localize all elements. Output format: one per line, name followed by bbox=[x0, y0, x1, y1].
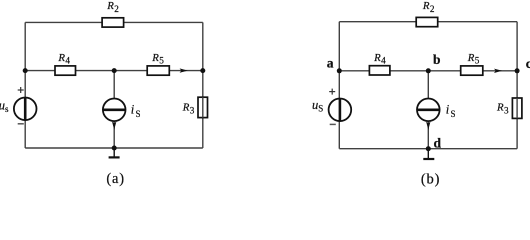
wire (b) middle horizontal bbox=[339, 70, 517, 72]
resistor R5 (b) bbox=[461, 66, 483, 75]
wire (a) bottom side bbox=[25, 147, 203, 149]
current arrow on (b) middle wire toward node c bbox=[494, 69, 502, 73]
current source is (a) bbox=[103, 99, 126, 122]
resistor R3 (a) bbox=[198, 97, 208, 117]
plus polarity mark (b) bbox=[329, 89, 335, 95]
wire (b) left side bbox=[338, 22, 340, 149]
ground symbol (a) bbox=[109, 148, 120, 157]
resistor R2 (b) bbox=[416, 17, 438, 26]
wire (a) right side bbox=[202, 22, 204, 148]
node b junction bbox=[426, 68, 431, 73]
resistor R2 (a) bbox=[102, 18, 124, 27]
node c junction bbox=[515, 68, 520, 73]
wire (a) left side bbox=[24, 22, 26, 148]
resistor R4 (a) bbox=[55, 66, 76, 75]
plus polarity mark (a) bbox=[18, 87, 24, 93]
ground symbol (b) bbox=[423, 149, 434, 159]
node (a) bottom junction bbox=[112, 146, 117, 151]
wire (b) right side bbox=[516, 22, 518, 149]
svg-text:c: c bbox=[526, 56, 530, 71]
current direction arrow below iS (b) bbox=[426, 122, 430, 130]
svg-text:(b): (b) bbox=[421, 171, 440, 187]
wire (a) top side bbox=[25, 21, 203, 23]
wire (a) current-source branch bbox=[113, 71, 115, 148]
node d junction bbox=[426, 146, 431, 151]
svg-text:b: b bbox=[433, 52, 441, 67]
wire (a) middle horizontal bbox=[25, 70, 203, 72]
voltage source us (a) bbox=[14, 98, 37, 121]
node (a) left junction bbox=[23, 68, 28, 73]
resistor R3 (b) bbox=[512, 98, 522, 118]
minus polarity mark (b) bbox=[330, 123, 336, 125]
node a junction (b) bbox=[337, 68, 342, 73]
node (a) right junction bbox=[200, 68, 205, 73]
voltage source uS (b) bbox=[329, 99, 352, 122]
wire (b) bottom side bbox=[339, 148, 517, 150]
wire (b) current-source branch bbox=[427, 71, 429, 149]
minus polarity mark (a) bbox=[18, 123, 24, 125]
current arrow on (a) middle wire toward right node bbox=[180, 68, 188, 72]
wire (b) top side bbox=[339, 21, 517, 23]
svg-text:a: a bbox=[327, 55, 334, 70]
node (a) middle junction bbox=[112, 68, 117, 73]
resistor R4 (b) bbox=[369, 66, 390, 75]
current direction arrow below is (a) bbox=[112, 122, 116, 130]
svg-text:d: d bbox=[434, 135, 442, 150]
svg-text:(a): (a) bbox=[106, 171, 125, 187]
current source iS (b) bbox=[417, 99, 440, 122]
resistor R5 (a) bbox=[147, 66, 169, 75]
